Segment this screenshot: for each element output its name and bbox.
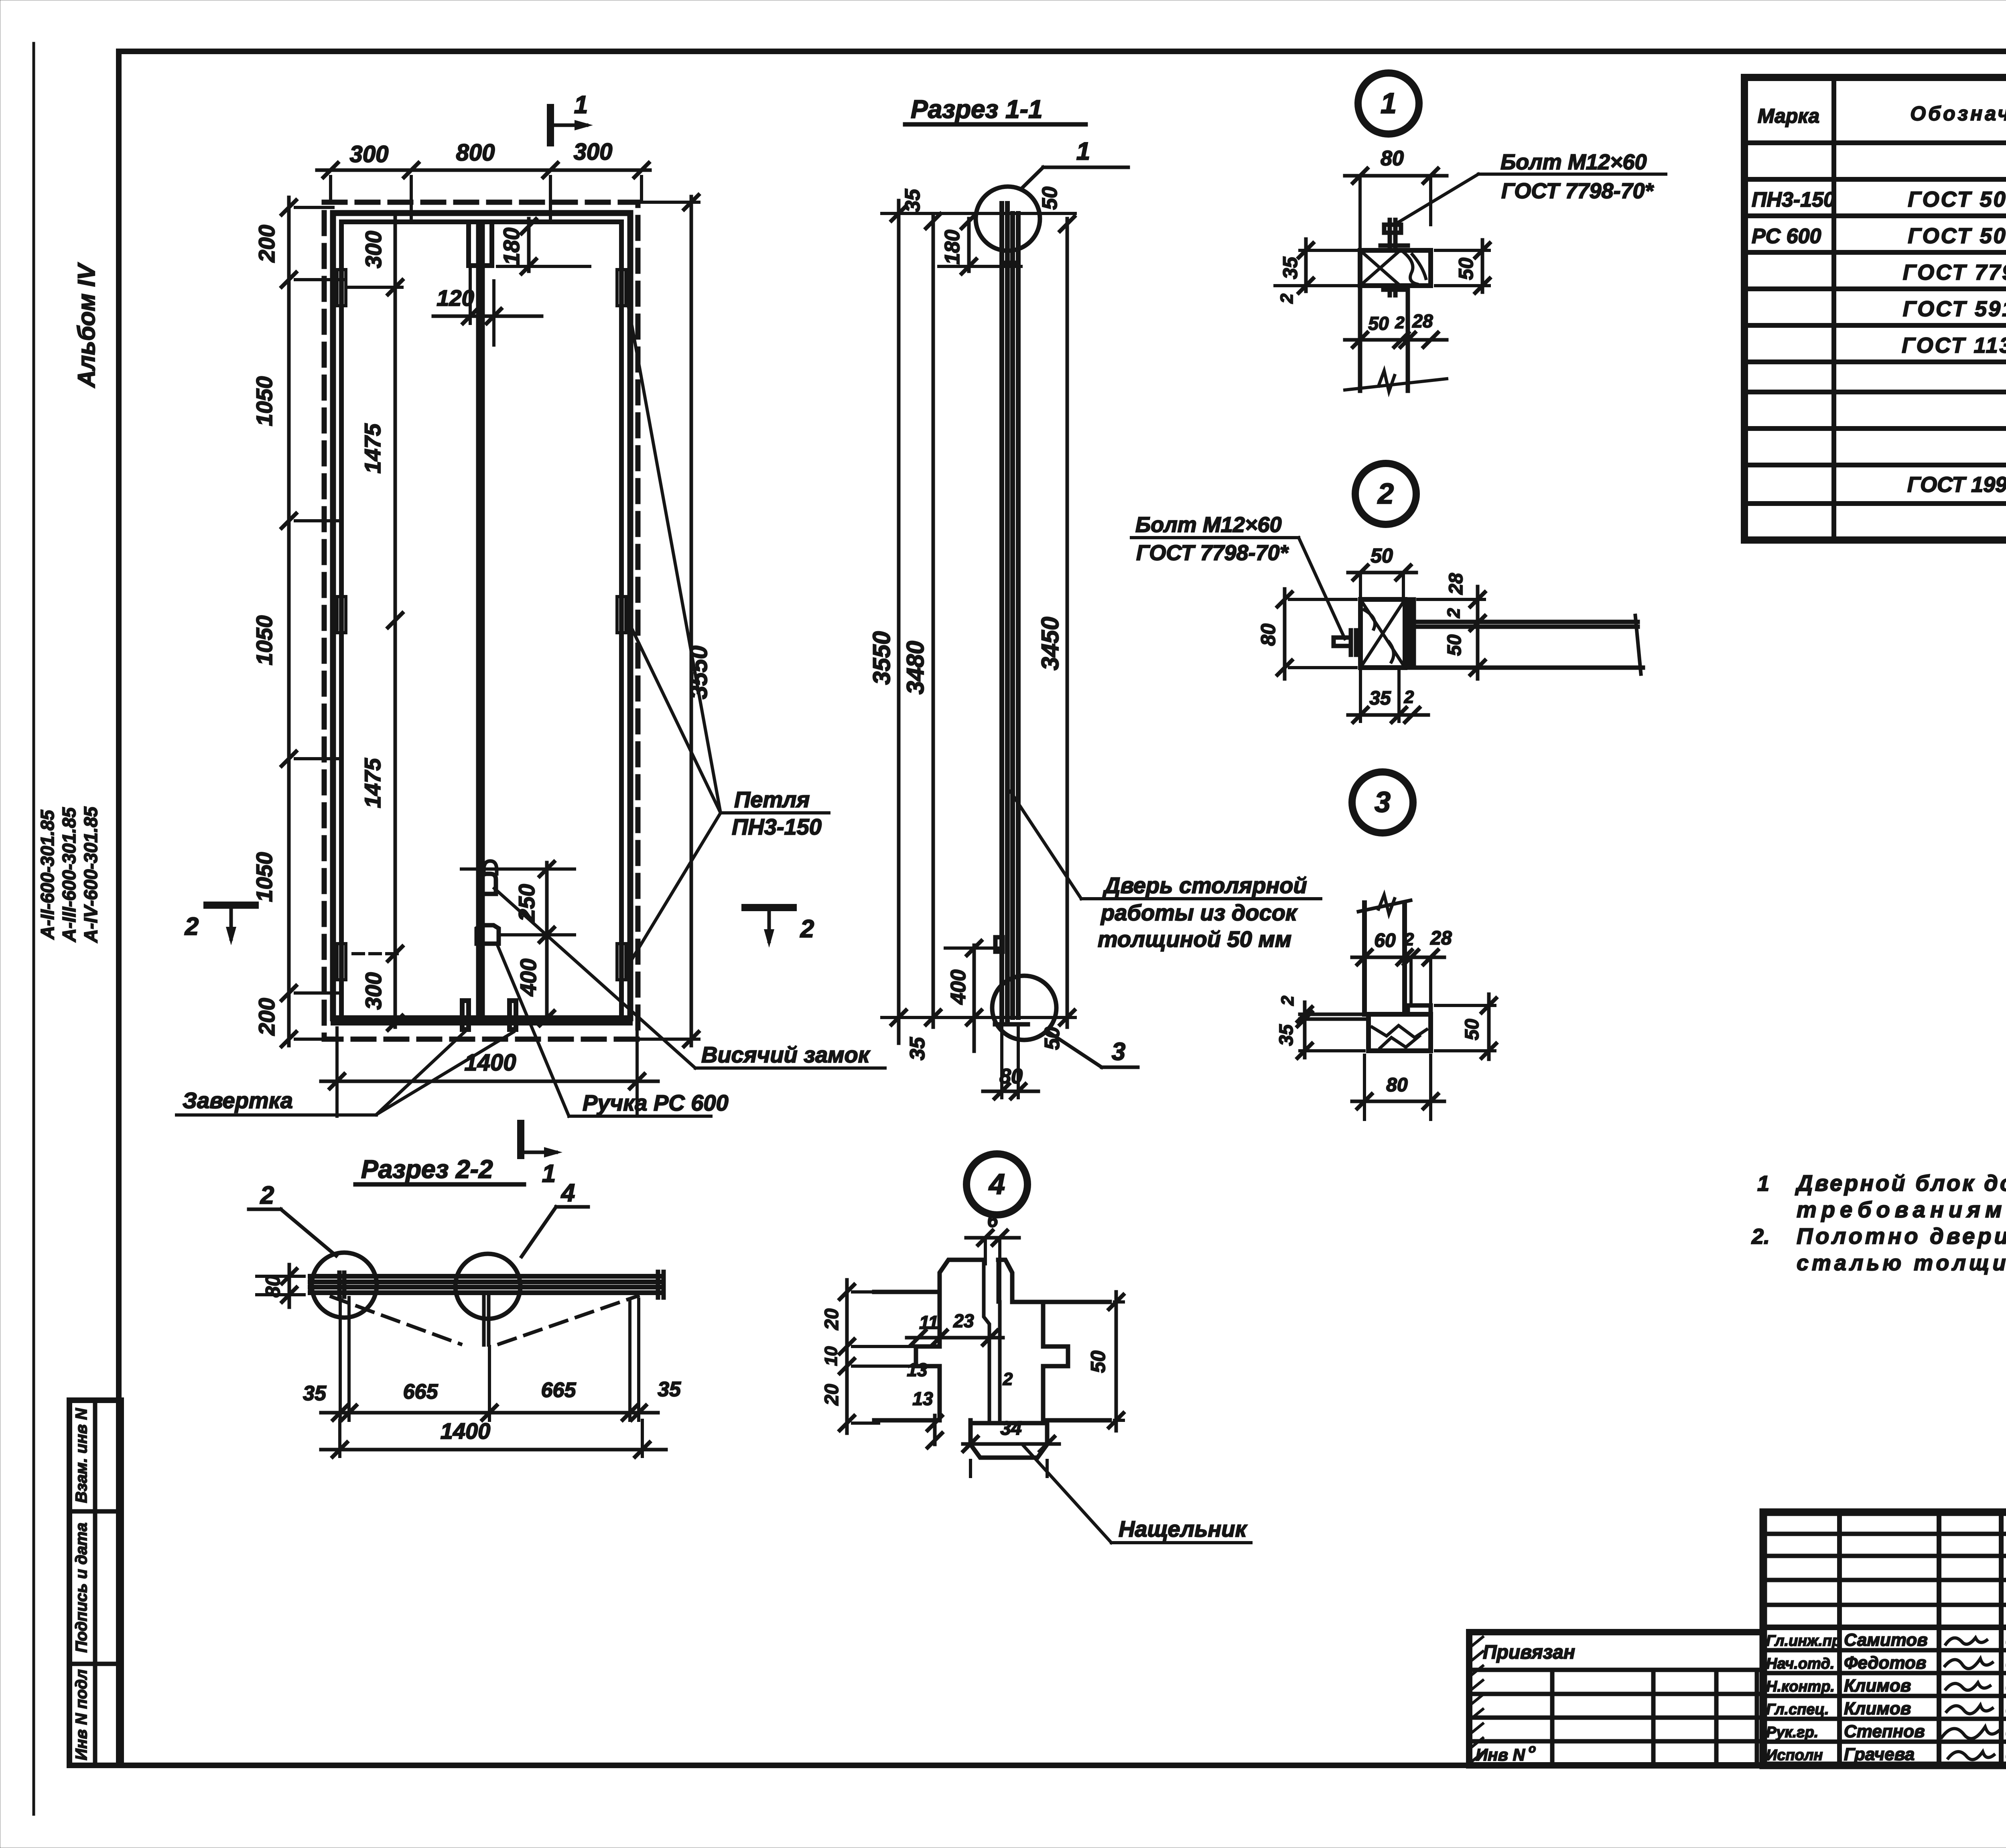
svg-text:4: 4 xyxy=(560,1179,575,1207)
svg-text:50: 50 xyxy=(1038,187,1062,210)
detail 1: dim 80 xyxy=(1345,174,1447,178)
svg-text:Климов: Климов xyxy=(1844,1699,1911,1718)
extension block Привязан xyxy=(1469,1632,1763,1765)
title block upper-left grid rows xyxy=(1763,1532,2006,1536)
detail 2: dims 35 2 bottom xyxy=(1348,713,1428,717)
svg-text:Болт М12×60: Болт М12×60 xyxy=(1135,513,1281,537)
svg-text:35: 35 xyxy=(303,1382,327,1405)
svg-text:Марка: Марка xyxy=(1758,105,1819,127)
svg-text:20: 20 xyxy=(821,1384,843,1406)
bolt on leaf (section) xyxy=(995,937,1003,952)
dim 400 (section) xyxy=(973,945,976,1051)
svg-text:3: 3 xyxy=(1112,1038,1125,1066)
svg-text:300: 300 xyxy=(361,231,386,268)
svg-text:РС 600: РС 600 xyxy=(1752,225,1821,248)
svg-text:665: 665 xyxy=(541,1379,577,1402)
label Завертка xyxy=(177,1113,376,1117)
svg-text:ГОСТ 7798-70*: ГОСТ 7798-70* xyxy=(1903,260,2006,284)
dim 3550 (section) xyxy=(897,201,901,1043)
svg-text:Обозначение: Обозначение xyxy=(1910,102,2006,125)
svg-text:300: 300 xyxy=(350,141,389,167)
title block full separator xyxy=(1763,1625,2006,1630)
svg-text:80: 80 xyxy=(1257,623,1279,646)
svg-text:35: 35 xyxy=(1279,256,1301,279)
svg-text:Подпись и дата: Подпись и дата xyxy=(73,1523,90,1653)
detail 4: dim 34 xyxy=(963,1442,1059,1446)
svg-text:2: 2 xyxy=(800,915,814,943)
svg-text:требованиями ГОСТ 475-78: требованиями ГОСТ 475-78 xyxy=(1797,1197,2006,1222)
svg-text:ПН3-150: ПН3-150 xyxy=(1752,188,1835,211)
svg-text:2: 2 xyxy=(1444,608,1464,618)
detail circle at top (node 1) xyxy=(976,187,1040,251)
dim 3550 right xyxy=(690,197,693,1046)
svg-text:3550: 3550 xyxy=(868,631,895,684)
svg-text:2: 2 xyxy=(1277,293,1297,304)
dim chain inner 300/1475/1475/300 xyxy=(394,213,397,1027)
svg-text:Полотно двери обить оцинкованн: Полотно двери обить оцинкованной кровель… xyxy=(1797,1223,2006,1249)
detail 2: door leaf xyxy=(1414,620,1638,624)
svg-text:2: 2 xyxy=(185,913,199,940)
svg-text:2: 2 xyxy=(1377,478,1394,510)
svg-text:1400: 1400 xyxy=(464,1050,516,1076)
svg-text:1: 1 xyxy=(1381,87,1397,120)
svg-text:28: 28 xyxy=(1412,311,1433,331)
svg-text:Петля: Петля xyxy=(734,787,810,812)
leader node 1 xyxy=(1043,166,1128,169)
wood grain xyxy=(1404,253,1426,284)
svg-text:60: 60 xyxy=(1374,930,1396,951)
detail 1: bolt leader and label xyxy=(1397,174,1478,223)
svg-text:1050: 1050 xyxy=(252,376,277,426)
svg-text:300: 300 xyxy=(361,972,386,1009)
svg-text:2: 2 xyxy=(1278,995,1297,1006)
svg-text:80: 80 xyxy=(1386,1074,1408,1096)
svg-text:50: 50 xyxy=(1455,258,1477,280)
svg-text:120: 120 xyxy=(437,285,474,311)
svg-text:28: 28 xyxy=(1430,928,1452,949)
svg-text:50: 50 xyxy=(1444,634,1465,656)
detail 2: stop strip xyxy=(1407,599,1412,668)
detail 4: dims 11 23 xyxy=(907,1336,1003,1340)
dim 80 (section 2-2) xyxy=(288,1265,291,1307)
svg-text:200: 200 xyxy=(254,998,279,1036)
svg-text:80: 80 xyxy=(1381,147,1404,170)
svg-text:Привязан: Привязан xyxy=(1483,1642,1575,1663)
svg-text:Федотов: Федотов xyxy=(1844,1653,1926,1673)
label Петля ПН3-150 with leaders to hinges xyxy=(721,811,829,814)
svg-text:300: 300 xyxy=(574,139,613,165)
label Нащельник xyxy=(1111,1541,1251,1544)
dim chain left 200/1050/1050/1050/200 xyxy=(287,197,291,1046)
section mark 2 (left) xyxy=(207,902,255,909)
svg-text:Нач.отд.: Нач.отд. xyxy=(1766,1655,1834,1672)
svg-text:1: 1 xyxy=(1076,138,1090,165)
label Висячий замок xyxy=(695,1066,885,1070)
top bolt (шпингалет) xyxy=(469,222,492,266)
door bottom second line xyxy=(333,1021,630,1026)
section mark 1 (bottom) xyxy=(517,1123,524,1156)
svg-text:1: 1 xyxy=(574,91,588,119)
svg-text:Дверной блок должен изготовлят: Дверной блок должен изготовлятся в соотв… xyxy=(1795,1170,2006,1196)
label Ручка РС 600 xyxy=(569,1115,711,1118)
door elevation: wall opening (dashed) xyxy=(324,202,638,1039)
svg-text:ГОСТ 7798-70*: ГОСТ 7798-70* xyxy=(1136,541,1289,565)
detail circle label 4 xyxy=(966,1154,1027,1215)
detail 3: dims 2 35 left xyxy=(1303,1002,1307,1058)
detail 2: dims 28 2 50 right xyxy=(1476,587,1480,679)
binding margin line xyxy=(32,43,35,1814)
svg-text:665: 665 xyxy=(403,1380,439,1403)
detail 4: dim 6 top xyxy=(966,1236,1019,1240)
detail 1: bolt M12x60 xyxy=(1388,220,1392,250)
svg-text:Инв N подл: Инв N подл xyxy=(73,1669,90,1761)
svg-text:3450: 3450 xyxy=(1037,617,1064,670)
svg-text:1475: 1475 xyxy=(360,758,385,808)
leader node 3 xyxy=(1047,1031,1102,1067)
svg-text:Дверь столярной: Дверь столярной xyxy=(1102,873,1307,898)
svg-text:o: o xyxy=(1529,1742,1536,1755)
svg-text:Альбом IV: Альбом IV xyxy=(73,262,100,388)
svg-text:35: 35 xyxy=(1369,688,1391,709)
svg-text:10: 10 xyxy=(821,1346,841,1366)
dim 1400 bottom xyxy=(321,1080,658,1083)
svg-text:50: 50 xyxy=(1370,544,1393,567)
break line xyxy=(1635,615,1641,674)
dim 3450 (section) xyxy=(1066,219,1069,1027)
right board xyxy=(998,1260,1110,1420)
svg-text:35: 35 xyxy=(658,1378,681,1401)
detail 3: dim 80 bottom xyxy=(1352,1100,1444,1103)
svg-text:34: 34 xyxy=(1000,1418,1021,1439)
dim 120 xyxy=(433,315,542,318)
svg-text:сталью толщиной 0,6 мм ГОСТ 19: сталью толщиной 0,6 мм ГОСТ 19904-74* с … xyxy=(1797,1251,2006,1275)
detail circle label 2 xyxy=(1355,463,1416,524)
dim 1400 (section 2-2) xyxy=(321,1448,666,1452)
dim chain top 300/800/300 xyxy=(317,169,650,172)
svg-text:Гл.инж.пр: Гл.инж.пр xyxy=(1766,1633,1841,1649)
detail circle (node 2) xyxy=(312,1253,377,1318)
handle РС600 xyxy=(477,925,499,944)
svg-text:Исполн: Исполн xyxy=(1766,1747,1823,1764)
svg-text:Нащельник: Нащельник xyxy=(1119,1516,1248,1541)
detail 1: wall below xyxy=(1358,286,1362,391)
detail 1: frame head block xyxy=(1360,250,1431,286)
svg-text:35: 35 xyxy=(906,1037,929,1060)
bolt below leaf xyxy=(482,1297,486,1345)
svg-text:800: 800 xyxy=(456,140,495,166)
svg-text:Н.контр.: Н.контр. xyxy=(1766,1678,1835,1695)
hinges ПН3-150 xyxy=(337,270,346,306)
section mark 2 (right) xyxy=(745,904,793,911)
dim 180 xyxy=(527,219,531,271)
svg-text:ПН3-150: ПН3-150 xyxy=(732,814,822,839)
svg-text:1050: 1050 xyxy=(252,615,277,666)
signatures squiggles xyxy=(1946,1638,1987,1644)
svg-text:Инв N: Инв N xyxy=(1476,1745,1526,1764)
svg-text:толщиной 50 мм: толщиной 50 мм xyxy=(1098,926,1291,952)
svg-text:Взам. инв N: Взам. инв N xyxy=(73,1408,90,1503)
detail circle label 3 xyxy=(1352,772,1413,833)
detail circle (node 4) xyxy=(455,1254,520,1319)
svg-text:ГОСТ 7798-70*: ГОСТ 7798-70* xyxy=(1501,179,1655,203)
svg-text:А-III-600-301.85: А-III-600-301.85 xyxy=(59,807,79,942)
svg-text:Разрез 1-1: Разрез 1-1 xyxy=(911,95,1043,124)
svg-text:50: 50 xyxy=(1087,1350,1109,1373)
svg-text:13: 13 xyxy=(907,1359,928,1380)
svg-text:2: 2 xyxy=(1404,687,1414,707)
wood end grain xyxy=(1372,1026,1427,1048)
detail circle label 1 xyxy=(1358,73,1419,134)
detail circle at bottom (node 3) xyxy=(992,976,1056,1040)
dim 80 bottom xyxy=(983,1090,1038,1093)
detail 1: dim 35 / 2 left xyxy=(1304,239,1308,291)
svg-text:2: 2 xyxy=(260,1182,274,1209)
svg-text:2.: 2. xyxy=(1751,1225,1770,1249)
detail 2: bolt xyxy=(1349,630,1353,655)
svg-text:28: 28 xyxy=(1446,573,1467,595)
title block frame xyxy=(1763,1512,2006,1765)
svg-text:ГОСТ 5915-70*: ГОСТ 5915-70* xyxy=(1903,297,2006,321)
joint seam xyxy=(984,1260,1000,1423)
detail 3: floor steel lines left xyxy=(1300,1013,1368,1016)
detail 3: nashchelnik step xyxy=(1408,1005,1431,1014)
svg-text:13: 13 xyxy=(912,1388,933,1409)
svg-text:А-IV-600-301.85: А-IV-600-301.85 xyxy=(80,806,101,943)
detail 3: top chain 60 2 28 xyxy=(1352,956,1444,959)
svg-text:20: 20 xyxy=(821,1308,843,1330)
dims 250 / 400 xyxy=(545,863,549,1018)
svg-text:3: 3 xyxy=(1375,786,1391,818)
svg-text:35: 35 xyxy=(901,189,924,212)
left board xyxy=(874,1260,984,1420)
svg-text:23: 23 xyxy=(953,1310,974,1331)
svg-text:2: 2 xyxy=(1395,313,1404,332)
detail 1: dim 50 right xyxy=(1481,240,1484,292)
svg-text:400: 400 xyxy=(516,959,541,996)
svg-text:180: 180 xyxy=(499,227,524,265)
svg-text:Разрез 2-2: Разрез 2-2 xyxy=(361,1155,493,1184)
svg-text:Самитов: Самитов xyxy=(1844,1630,1928,1650)
detail 3: leaf verticals xyxy=(1362,903,1367,1014)
svg-text:ГОСТ 11371-78: ГОСТ 11371-78 xyxy=(1902,333,2006,357)
svg-text:1475: 1475 xyxy=(360,423,385,473)
detail 1: bottom chain 50 2 28 xyxy=(1345,338,1447,342)
detail 3: dim 50 right xyxy=(1487,994,1491,1059)
svg-text:80: 80 xyxy=(262,1275,284,1298)
svg-text:80: 80 xyxy=(999,1065,1023,1088)
section 1-1 door leaf xyxy=(999,203,1004,1023)
break line xyxy=(1358,900,1411,912)
wood grain xyxy=(1364,610,1394,662)
svg-text:ГОСТ 5088-73: ГОСТ 5088-73 xyxy=(1908,187,2006,211)
svg-text:400: 400 xyxy=(947,970,970,1005)
title block verticals (left section) xyxy=(1837,1512,1842,1765)
detail 2: frame jamb block xyxy=(1360,599,1405,668)
svg-text:Грачева: Грачева xyxy=(1844,1744,1915,1764)
svg-text:Ручка РС 600: Ручка РС 600 xyxy=(583,1090,729,1115)
dim 180 (section) xyxy=(967,219,971,271)
svg-text:11: 11 xyxy=(919,1312,938,1333)
svg-text:Климов: Климов xyxy=(1844,1676,1911,1696)
svg-text:1400: 1400 xyxy=(441,1418,491,1444)
svg-text:Завертка: Завертка xyxy=(183,1088,293,1113)
detail 2: dim 80 left xyxy=(1283,589,1287,679)
завертка bolts at bottom xyxy=(462,1001,469,1030)
center mullion (leaf meeting) xyxy=(476,222,481,1018)
dim chain 35/665/665/35 xyxy=(321,1411,658,1415)
svg-text:180: 180 xyxy=(941,230,964,265)
nashchelnik strip xyxy=(971,1423,1047,1458)
svg-text:1: 1 xyxy=(542,1160,556,1188)
svg-text:6: 6 xyxy=(987,1210,998,1231)
svg-text:50: 50 xyxy=(1368,313,1389,334)
door swing dashed lines xyxy=(331,1297,461,1344)
svg-text:А-II-600-301.85: А-II-600-301.85 xyxy=(37,809,58,940)
svg-text:Гл.спец.: Гл.спец. xyxy=(1766,1701,1829,1718)
detail 2: dim 50 top xyxy=(1348,571,1416,575)
section 1-1 extension lines xyxy=(882,212,1075,215)
svg-text:1050: 1050 xyxy=(252,852,277,902)
svg-text:50: 50 xyxy=(1462,1019,1483,1040)
svg-text:35: 35 xyxy=(1276,1024,1297,1046)
svg-text:работы из досок: работы из досок xyxy=(1100,900,1298,925)
svg-text:4: 4 xyxy=(988,1168,1005,1200)
svg-text:2: 2 xyxy=(1404,930,1414,949)
label Дверь столярной работы xyxy=(1081,897,1321,900)
door frame inner / leaf edges xyxy=(339,222,344,1018)
detail 4: dim 50 right xyxy=(1115,1292,1118,1431)
svg-text:Висячий замок: Висячий замок xyxy=(701,1042,871,1067)
svg-text:2: 2 xyxy=(1003,1369,1013,1389)
svg-text:Болт М12×60: Болт М12×60 xyxy=(1500,150,1647,174)
detail 4: left dim stack 20 10 20 xyxy=(845,1280,849,1433)
bottom-left stamp grid xyxy=(69,1400,121,1765)
padlock (висячий замок) xyxy=(481,874,496,894)
section mark 1 (top) xyxy=(547,108,554,143)
svg-text:ГОСТ 19904-74*: ГОСТ 19904-74* xyxy=(1907,473,2006,497)
svg-text:200: 200 xyxy=(254,225,279,262)
dim 3480 (section) xyxy=(932,217,935,1027)
svg-text:ГОСТ 5087-80: ГОСТ 5087-80 xyxy=(1908,224,2006,248)
title block signature rows xyxy=(1763,1648,2006,1653)
door frame outer xyxy=(333,213,630,1018)
svg-text:1: 1 xyxy=(1757,1172,1769,1196)
svg-text:Степнов: Степнов xyxy=(1844,1722,1925,1741)
svg-text:Рук.гр.: Рук.гр. xyxy=(1766,1724,1818,1741)
svg-text:3480: 3480 xyxy=(902,641,929,694)
specification table xyxy=(1744,77,2006,540)
detail 3: threshold block xyxy=(1368,1014,1431,1051)
section 2-2 leaf xyxy=(310,1274,663,1279)
detail 4: dims 13 13 xyxy=(933,1415,937,1444)
